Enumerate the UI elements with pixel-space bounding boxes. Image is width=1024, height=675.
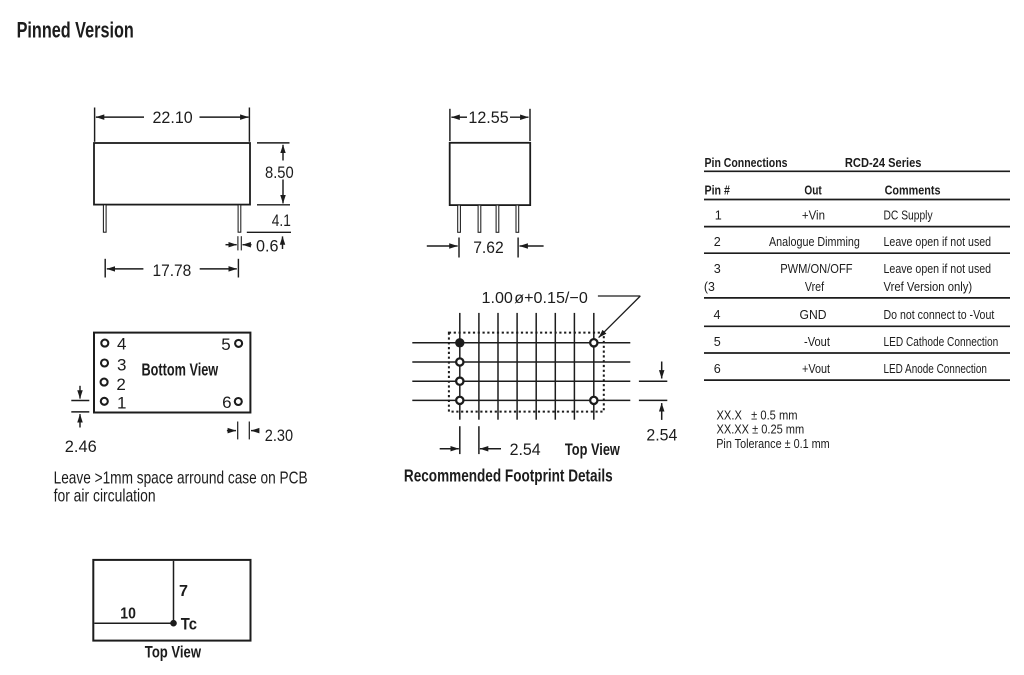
svg-text:Comments: Comments <box>885 183 941 197</box>
svg-text:7.62: 7.62 <box>473 238 504 257</box>
svg-text:XX.XX ± 0.25 mm: XX.XX ± 0.25 mm <box>717 423 805 437</box>
svg-text:DC Supply: DC Supply <box>884 209 934 223</box>
svg-text:2.54: 2.54 <box>510 440 541 459</box>
svg-text:0.6: 0.6 <box>256 237 279 256</box>
svg-text:7: 7 <box>179 583 188 600</box>
svg-text:Analogue Dimming: Analogue Dimming <box>769 235 860 249</box>
svg-text:Pin #: Pin # <box>705 183 730 197</box>
svg-text:17.78: 17.78 <box>153 261 192 280</box>
svg-text:LED Cathode Connection: LED Cathode Connection <box>884 335 999 349</box>
svg-text:4.1: 4.1 <box>272 211 291 230</box>
svg-text:5: 5 <box>714 335 721 349</box>
svg-text:RCD-24 Series: RCD-24 Series <box>845 156 922 170</box>
svg-text:LED Anode Connection: LED Anode Connection <box>884 362 987 376</box>
svg-text:for air circulation: for air circulation <box>54 486 156 506</box>
svg-text:(3: (3 <box>704 280 715 294</box>
svg-text:6: 6 <box>222 393 231 412</box>
svg-text:Pin Tolerance ± 0.1 mm: Pin Tolerance ± 0.1 mm <box>716 437 830 451</box>
svg-text:2.54: 2.54 <box>646 425 677 444</box>
svg-text:PWM/ON/OFF: PWM/ON/OFF <box>780 262 853 276</box>
svg-text:2.30: 2.30 <box>265 426 293 445</box>
svg-text:6: 6 <box>714 362 721 376</box>
svg-text:+Vin: +Vin <box>802 209 825 223</box>
svg-text:1: 1 <box>715 209 722 223</box>
svg-text:8.50: 8.50 <box>265 163 294 182</box>
svg-text:Leave open if not used: Leave open if not used <box>884 235 992 249</box>
svg-text:Do not connect to -Vout: Do not connect to -Vout <box>884 308 995 322</box>
svg-text:Pin Connections: Pin Connections <box>705 156 788 170</box>
svg-text:Bottom View: Bottom View <box>142 360 219 380</box>
svg-text:1.00 ø+0.15/−0: 1.00 ø+0.15/−0 <box>482 290 588 307</box>
svg-text:Top View: Top View <box>145 642 202 661</box>
svg-text:10: 10 <box>120 606 136 623</box>
svg-text:22.10: 22.10 <box>153 108 193 127</box>
svg-text:5: 5 <box>221 335 230 354</box>
svg-text:4: 4 <box>117 335 126 354</box>
svg-text:Leave open if not used: Leave open if not used <box>884 262 992 276</box>
svg-text:Recommended Footprint Details: Recommended Footprint Details <box>404 466 613 486</box>
svg-text:Out: Out <box>804 183 822 197</box>
svg-text:XX.X ± 0.5 mm: XX.X ± 0.5 mm <box>717 409 798 423</box>
svg-text:3: 3 <box>117 356 126 375</box>
svg-text:Vref: Vref <box>805 280 825 294</box>
svg-text:Top View: Top View <box>565 440 621 459</box>
svg-text:+Vout: +Vout <box>802 362 830 376</box>
svg-text:Pinned Version: Pinned Version <box>17 17 134 42</box>
svg-text:2: 2 <box>714 235 721 249</box>
svg-text:12.55: 12.55 <box>468 108 508 127</box>
svg-text:-Vout: -Vout <box>804 335 830 349</box>
svg-text:4: 4 <box>714 308 721 322</box>
svg-text:Vref Version only): Vref Version only) <box>884 280 973 294</box>
svg-text:GND: GND <box>800 308 827 322</box>
svg-text:1: 1 <box>117 394 126 413</box>
svg-text:Tc: Tc <box>181 614 197 633</box>
svg-text:2.46: 2.46 <box>65 437 97 456</box>
svg-text:2: 2 <box>116 375 125 394</box>
svg-text:3: 3 <box>714 262 721 276</box>
